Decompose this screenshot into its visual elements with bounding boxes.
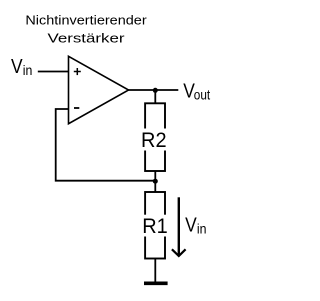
svg-text:R2: R2 <box>141 128 167 152</box>
svg-text:out: out <box>194 87 210 103</box>
wire Vin to + input <box>38 71 69 73</box>
wire output node to R2 <box>154 90 156 103</box>
arrow Vin across R1 <box>172 197 186 256</box>
wire R1 to ground <box>154 259 156 283</box>
ground <box>144 281 168 285</box>
wire feedback node to R1 <box>154 181 156 192</box>
title <box>25 12 147 45</box>
svg-text:in: in <box>197 220 207 236</box>
svg-text:Verstärker: Verstärker <box>48 30 126 45</box>
pin + (non-inverting input) <box>74 68 81 75</box>
wire op-amp output <box>129 89 179 91</box>
wire feedback loop <box>56 109 156 181</box>
op-amp U1 <box>69 56 129 123</box>
junction feedback node <box>153 179 158 184</box>
svg-text:R1: R1 <box>142 214 168 238</box>
node Vin input label <box>11 56 32 78</box>
node Vout label <box>183 80 210 102</box>
junction output node <box>153 88 158 93</box>
svg-text:in: in <box>23 62 33 78</box>
resistor R2 <box>141 103 170 171</box>
resistor R1 <box>141 192 170 259</box>
pin - (inverting input) <box>74 107 79 109</box>
svg-text:Nichtinvertierender: Nichtinvertierender <box>25 12 147 27</box>
label Vin across R1 <box>185 214 206 236</box>
svg-text:V: V <box>185 214 197 236</box>
svg-text:V: V <box>11 56 23 78</box>
wire R2 to feedback node <box>154 171 156 181</box>
